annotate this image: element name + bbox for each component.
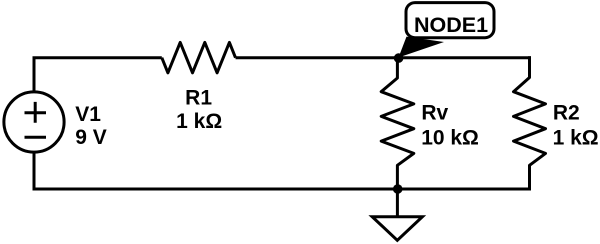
svg-text:10 kΩ: 10 kΩ (421, 126, 479, 149)
svg-text:1 kΩ: 1 kΩ (553, 126, 599, 149)
svg-text:9 V: 9 V (75, 126, 107, 149)
svg-text:R2: R2 (553, 102, 580, 125)
wire: ground node to R2 (bottom right) (397, 188, 529, 191)
svg-text:NODE1: NODE1 (414, 13, 488, 37)
wire: V1 positive terminal to R1 (top left) (34, 58, 162, 92)
wire: R1 to NODE1 junction (top) (236, 56, 398, 59)
node label NODE1 callout (399, 3, 495, 58)
svg-text:R1: R1 (185, 87, 212, 110)
junction node dot at NODE1 (top) (394, 53, 404, 63)
resistor Rv (381, 58, 414, 189)
ground (372, 189, 422, 240)
svg-text:Rv: Rv (421, 102, 448, 125)
voltage source V1 (4, 92, 64, 152)
junction node dot (bottom) (393, 184, 403, 194)
svg-text:1 kΩ: 1 kΩ (176, 110, 222, 133)
resistor R2 (514, 56, 546, 190)
wire: NODE1 junction to R2 (top right) (397, 56, 531, 59)
svg-text:V1: V1 (75, 103, 101, 126)
resistor R1 (162, 42, 236, 72)
wire: V1 negative terminal to ground node (bottom left) (34, 152, 397, 189)
